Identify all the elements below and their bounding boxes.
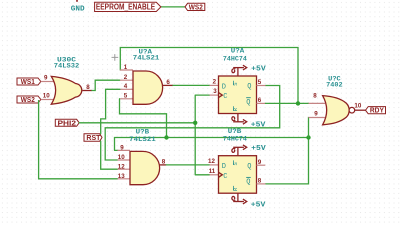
svg-text:Q: Q xyxy=(246,179,250,187)
svg-text:9: 9 xyxy=(314,111,318,118)
svg-text:U?A: U?A xyxy=(231,48,245,55)
supply +5V arrow FF U?A preset xyxy=(232,65,247,76)
or-gate U30C 74LS32 xyxy=(51,76,81,104)
pin stubs AND U?A inputs xyxy=(120,70,133,99)
svg-text:4: 4 xyxy=(124,83,128,90)
pin 9 stub FF U?B Q unconnected xyxy=(257,164,266,166)
svg-text:Q: Q xyxy=(247,163,251,171)
svg-text:74HC74: 74HC74 xyxy=(223,135,247,142)
flag PHI2 xyxy=(55,119,79,126)
svg-text:10: 10 xyxy=(118,154,125,161)
flag WS1 xyxy=(17,78,41,85)
svg-text:WS2: WS2 xyxy=(21,95,35,104)
pin 12 stub FF U?B D xyxy=(210,164,219,166)
pin 5 stub FF U?A Q xyxy=(257,85,266,87)
svg-text:74HC74: 74HC74 xyxy=(223,55,247,62)
svg-text:C: C xyxy=(223,173,227,181)
wire FF U?A Q-bar to NOR pin 8 xyxy=(266,102,309,104)
svg-text:GND: GND xyxy=(71,6,85,14)
wire PHI2 net to both FF clocks xyxy=(79,95,209,175)
clock notch xyxy=(219,93,223,98)
svg-text:WS2: WS2 xyxy=(189,3,203,12)
svg-text:6: 6 xyxy=(166,79,170,86)
pin stubs AND U?B inputs xyxy=(118,150,131,178)
svg-text:13: 13 xyxy=(118,173,125,180)
svg-text:1: 1 xyxy=(124,64,128,71)
and-gate U?B 74LS21 xyxy=(130,151,160,184)
wire feedback net (Q-bar of U?B) xyxy=(115,138,309,184)
svg-text:5: 5 xyxy=(124,93,128,100)
svg-text:9: 9 xyxy=(44,74,48,81)
flag RST xyxy=(84,134,102,141)
svg-text:U?B: U?B xyxy=(136,129,150,136)
wire RST net down to AND U?B pin12 xyxy=(101,141,118,169)
svg-text:2: 2 xyxy=(124,74,128,81)
pin 8 stub NOR input xyxy=(309,102,326,104)
flip-flop U?B 74HC74 body xyxy=(219,156,257,194)
wire FF U?A Q to AND U?B pin10 xyxy=(105,86,280,161)
svg-text:5: 5 xyxy=(258,79,262,86)
pin 9 stub NOR input xyxy=(309,117,326,119)
svg-text:74LS32: 74LS32 xyxy=(54,62,80,69)
wire EEPROM_ENABLE to WS2 xyxy=(161,6,185,8)
pin 6 stub AND U?A output xyxy=(163,84,173,86)
wire AND U?B out to FF U?B pin D xyxy=(166,164,209,166)
wire AND U?A pin5 down to feedback net xyxy=(120,99,167,138)
svg-text:Q: Q xyxy=(246,99,250,107)
supply +5V arrow FF U?B preset xyxy=(232,145,247,156)
svg-text:RDY: RDY xyxy=(370,106,384,115)
junction feedback-left xyxy=(164,135,168,139)
svg-text:7402: 7402 xyxy=(326,82,343,89)
wire RST net up to AND U?A pin4 xyxy=(101,89,120,134)
pin 6 stub FF U?A Q-bar xyxy=(257,102,266,104)
svg-text:12: 12 xyxy=(208,158,215,165)
wire top net from AND U?A pin1 across to right side xyxy=(120,48,298,104)
pin 11 stub FF U?B C xyxy=(210,174,219,176)
supply +5V arrow FF U?A clear xyxy=(232,114,247,125)
svg-text:+5V: +5V xyxy=(251,122,266,130)
pin 8 stub FF U?B Q-bar xyxy=(257,183,266,185)
wire NOR pin9 stub riser xyxy=(308,118,310,138)
origin cross U?A xyxy=(112,54,119,61)
svg-text:74LS21: 74LS21 xyxy=(129,136,156,143)
wire WS2 net down to AND U?B pin13 xyxy=(39,101,118,179)
svg-text:8: 8 xyxy=(162,159,166,166)
output bubble xyxy=(349,107,355,113)
svg-text:+5V: +5V xyxy=(251,145,266,153)
svg-text:74LS21: 74LS21 xyxy=(133,55,160,62)
svg-text:9: 9 xyxy=(120,145,124,152)
junction NOR pin8 xyxy=(296,101,300,105)
svg-text:8: 8 xyxy=(258,178,262,185)
svg-text:EEPROM_ENABLE: EEPROM_ENABLE xyxy=(96,3,156,12)
supply +5V arrow FF U?B clear xyxy=(232,193,247,204)
net label flag EEPROM_ENABLE xyxy=(95,2,161,11)
junction PHI2 xyxy=(193,121,197,125)
junction feedback-right xyxy=(306,135,310,139)
wire AND U?A out to FF U?A pin D xyxy=(173,84,210,86)
pin 8 stub OR output xyxy=(83,90,93,92)
ground symbol stub (cut off at top edge) xyxy=(76,0,78,2)
flag RDY xyxy=(366,107,386,114)
svg-text:12: 12 xyxy=(118,163,125,170)
flip-flop U?A 74HC74 body xyxy=(219,76,257,114)
svg-text:+5V: +5V xyxy=(251,201,266,209)
svg-text:D: D xyxy=(222,83,226,91)
svg-text:PHI2: PHI2 xyxy=(58,118,77,127)
svg-text:10: 10 xyxy=(43,92,50,99)
pin 3 stub FF U?A C xyxy=(210,94,219,96)
svg-text:Q: Q xyxy=(247,83,251,91)
svg-text:6: 6 xyxy=(258,97,262,104)
svg-text:2: 2 xyxy=(213,78,217,85)
wire OR out to AND U?A pin2 xyxy=(92,80,120,90)
pin 10 stub OR gate xyxy=(41,99,55,101)
svg-text:C: C xyxy=(223,93,227,101)
nor-gate U?C 7402 xyxy=(323,96,350,125)
svg-text:11: 11 xyxy=(209,168,216,175)
pin 9 stub OR gate xyxy=(41,81,55,83)
flag WS2 (top) xyxy=(185,3,205,10)
svg-text:9: 9 xyxy=(258,159,262,166)
flag WS2 xyxy=(17,96,41,103)
svg-text:8: 8 xyxy=(86,84,90,91)
svg-text:U?B: U?B xyxy=(228,128,242,135)
svg-text:10: 10 xyxy=(354,103,361,110)
clock notch xyxy=(219,172,223,177)
svg-text:D: D xyxy=(222,163,226,171)
svg-text:WS1: WS1 xyxy=(21,77,35,86)
svg-text:RST: RST xyxy=(86,133,100,142)
svg-text:3: 3 xyxy=(213,88,217,95)
pin 2 stub FF U?A D xyxy=(210,84,219,86)
pin 10 stub NOR output xyxy=(355,109,366,111)
pin 8 stub AND U?B output xyxy=(160,164,167,166)
svg-text:8: 8 xyxy=(313,93,317,100)
svg-text:+5V: +5V xyxy=(251,65,266,73)
and-gate U?A 74LS21 xyxy=(133,71,163,104)
